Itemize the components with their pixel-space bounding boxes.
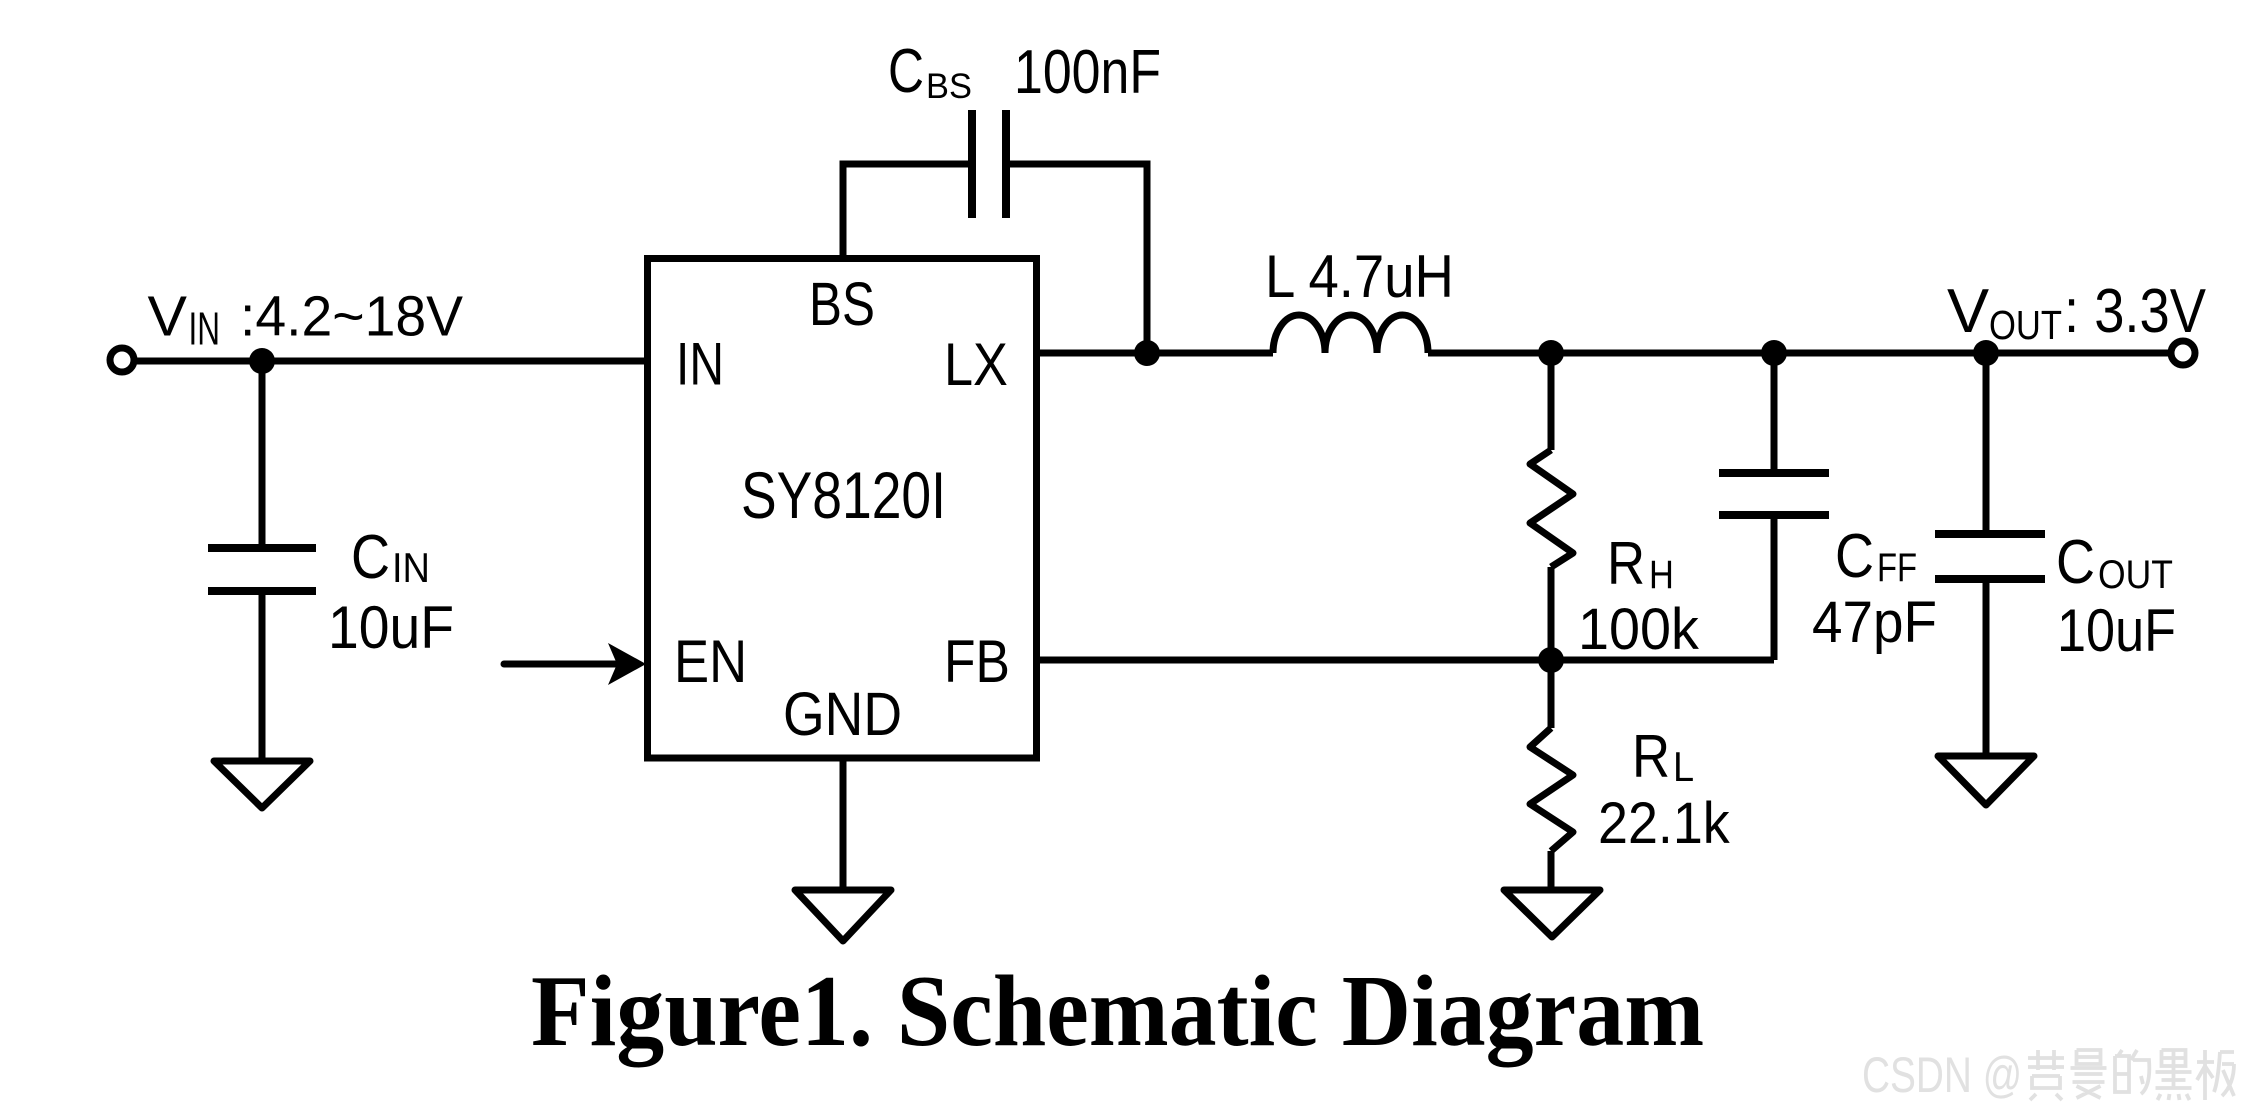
svg-text:GND: GND — [783, 680, 902, 748]
svg-text:R: R — [1632, 723, 1670, 790]
svg-text::4.2~18V: :4.2~18V — [240, 285, 463, 349]
svg-text:IN: IN — [392, 544, 430, 591]
svg-text:V: V — [1947, 277, 1990, 346]
svg-text:100nF: 100nF — [1014, 38, 1161, 107]
svg-text:L: L — [1673, 743, 1694, 790]
svg-text:R: R — [1607, 530, 1645, 597]
svg-text:OUT: OUT — [1989, 302, 2062, 348]
svg-text:22.1k: 22.1k — [1598, 791, 1731, 856]
svg-text:OUT: OUT — [2098, 553, 2173, 597]
svg-text:BS: BS — [926, 67, 972, 106]
svg-text:SY8120I: SY8120I — [741, 458, 946, 532]
svg-text:EN: EN — [674, 628, 747, 695]
svg-text:IN: IN — [676, 331, 724, 398]
svg-text:47pF: 47pF — [1812, 590, 1937, 655]
svg-text:10uF: 10uF — [328, 594, 454, 661]
svg-text:V: V — [148, 285, 188, 349]
svg-text:100k: 100k — [1578, 597, 1700, 662]
svg-text:C: C — [2056, 528, 2095, 597]
svg-text:IN: IN — [189, 303, 221, 355]
svg-text:BS: BS — [809, 270, 875, 338]
svg-text:C: C — [351, 523, 390, 592]
svg-text:FF: FF — [1877, 546, 1917, 590]
svg-text:C: C — [1835, 522, 1874, 591]
svg-text:Figure1. Schematic Diagram: Figure1. Schematic Diagram — [531, 955, 1704, 1068]
svg-text:CSDN @: CSDN @ — [1862, 1047, 2022, 1103]
svg-text:FB: FB — [944, 628, 1010, 695]
svg-text:H: H — [1649, 553, 1674, 597]
svg-text:C: C — [888, 37, 924, 106]
svg-text:: 3.3V: : 3.3V — [2064, 277, 2207, 346]
svg-text:LX: LX — [944, 331, 1008, 398]
svg-text:L 4.7uH: L 4.7uH — [1265, 243, 1454, 310]
svg-text:10uF: 10uF — [2057, 597, 2176, 664]
